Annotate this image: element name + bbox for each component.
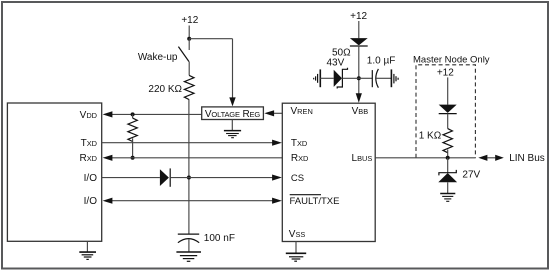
wire LIN node to zener Z2 xyxy=(447,158,449,173)
svg-text:RXD: RXD xyxy=(291,153,309,164)
double arrow to LIN Bus xyxy=(478,155,487,161)
wire +12 to diode D2 xyxy=(358,21,360,38)
wire D3 to resistor R3 xyxy=(447,114,449,129)
resistor R1 220 KΩ xyxy=(184,75,194,99)
svg-text:VBB: VBB xyxy=(352,106,369,117)
svg-text:LBUS: LBUS xyxy=(352,153,373,164)
svg-text:100 nF: 100 nF xyxy=(204,233,235,244)
resistor R3 1 KΩ xyxy=(443,129,452,153)
svg-text:TXD: TXD xyxy=(81,138,97,149)
wire I/O-CS line right part xyxy=(170,177,273,179)
svg-text:220 KΩ: 220 KΩ xyxy=(148,84,182,95)
ground (below C2) xyxy=(176,251,201,253)
svg-text:+12: +12 xyxy=(437,68,454,79)
diode D2 xyxy=(350,38,368,45)
wire Rxd line xyxy=(112,157,282,159)
svg-text:CS: CS xyxy=(291,173,304,184)
svg-text:VREN: VREN xyxy=(291,106,313,117)
node dot Vbb xyxy=(357,76,361,80)
wire I/O-FAULT line xyxy=(112,200,273,202)
diode D4 xyxy=(160,169,169,186)
svg-text:1.0 µF: 1.0 µF xyxy=(367,56,396,67)
wire MCU ground lead xyxy=(86,241,88,252)
wire Vbb node to capacitor C1 xyxy=(359,77,373,79)
zener Z2 27V xyxy=(439,170,456,176)
wire VREN (LIN IC to Voltage Reg) xyxy=(274,112,283,114)
node dot LIN xyxy=(446,156,450,160)
dashed box (master node) xyxy=(416,65,475,158)
capacitor C1 1.0 µF xyxy=(371,70,373,87)
voltage regulator U2 box xyxy=(202,107,264,120)
capacitor C2 100 nF xyxy=(178,233,199,235)
ground (below U1) xyxy=(286,252,306,254)
svg-text:I/O: I/O xyxy=(84,196,98,207)
diode D3 xyxy=(439,105,457,113)
wire R1 bottom down through lines to capacitor xyxy=(188,100,190,235)
wire junction to voltage-reg branch xyxy=(189,38,232,40)
switch SW1 Wake-up xyxy=(188,39,190,50)
ground (below U2) xyxy=(224,130,241,132)
wire Lbus line xyxy=(375,157,476,159)
wire Z2 to ground xyxy=(447,182,449,193)
resistor R2 pull-up xyxy=(132,114,134,118)
wire +12 down to junction xyxy=(188,26,190,39)
svg-text:Wake-up: Wake-up xyxy=(138,52,178,63)
node dot Vdd/R2 xyxy=(131,112,135,116)
wire U1 Vss ground lead xyxy=(295,242,297,254)
svg-text:1 KΩ: 1 KΩ xyxy=(419,131,442,142)
wire ground to zener Z1 xyxy=(320,77,333,79)
ground (sideways, left of Z1) xyxy=(319,69,321,87)
zener Z1 50Ω 43V xyxy=(334,70,342,87)
svg-text:TXD: TXD xyxy=(291,138,307,149)
svg-text:I/O: I/O xyxy=(84,173,98,184)
LIN transceiver U1 box xyxy=(282,103,375,241)
wire R3 to LIN line xyxy=(447,150,449,158)
svg-text:FAULT/TXE: FAULT/TXE xyxy=(290,196,340,207)
svg-text:LIN Bus: LIN Bus xyxy=(509,153,545,164)
wire Vdd line (MCU to Voltage Reg) xyxy=(112,113,202,115)
svg-text:+12: +12 xyxy=(350,11,367,22)
svg-text:VDD: VDD xyxy=(80,110,97,121)
wire C2 to ground xyxy=(188,239,190,251)
svg-text:Master Node Only: Master Node Only xyxy=(413,54,490,65)
svg-text:RXD: RXD xyxy=(79,153,97,164)
node junction on CS line xyxy=(187,176,191,180)
ground (below MCU) xyxy=(79,251,96,253)
wire D2 to Vbb node and down xyxy=(358,45,360,94)
svg-text:VSS: VSS xyxy=(289,229,306,240)
svg-text:43V: 43V xyxy=(327,58,345,69)
node dot R2/Rxd xyxy=(131,156,135,160)
ground (below Z2) xyxy=(440,193,455,195)
node junction J1 xyxy=(187,37,191,41)
wire U2 ground lead xyxy=(231,120,233,131)
ground (sideways, right of C1) xyxy=(390,69,392,87)
MCU box (left) xyxy=(7,103,101,241)
svg-text:VOLTAGE REG: VOLTAGE REG xyxy=(205,109,261,120)
svg-text:27V: 27V xyxy=(462,170,480,181)
wire branch down to voltage reg xyxy=(232,39,234,98)
wire +12 to diode D3 xyxy=(447,77,449,104)
wire I/O-CS line left part xyxy=(102,177,160,179)
svg-text:+12: +12 xyxy=(181,15,198,26)
wire C1 to ground xyxy=(376,77,391,79)
wire Z1 to Vbb node xyxy=(342,77,358,79)
wire Txd line xyxy=(102,142,273,144)
